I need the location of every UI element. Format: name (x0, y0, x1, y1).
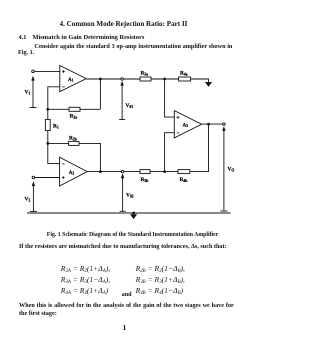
svg-text:R1: R1 (53, 124, 59, 130)
equation R4B (136, 287, 183, 295)
source arrow Vo (220, 126, 227, 211)
wire node to A1 minus (48, 87, 60, 110)
A3 plus pin (177, 116, 180, 119)
A3 minus pin (177, 132, 180, 134)
paragraph line 2 (18, 50, 34, 56)
resistor R4b (178, 170, 190, 174)
wire A2 output (87, 171, 121, 173)
op-amp A2 (60, 157, 88, 186)
resistor R2a (69, 107, 80, 111)
wire R2a to node (48, 108, 69, 110)
wire R3b to R4b (150, 171, 178, 173)
svg-text:V02: V02 (126, 193, 134, 199)
node A3 out (207, 123, 210, 126)
source arrow V1 (30, 76, 37, 108)
terminal V2 (32, 176, 35, 179)
svg-text:A1: A1 (68, 78, 74, 83)
svg-text:R2b: R2b (69, 135, 77, 141)
section heading (33, 35, 145, 41)
resistor R3b (140, 170, 150, 174)
node A1 out (99, 78, 102, 81)
wire R1 bottom (47, 131, 49, 144)
terminal V1 (32, 70, 35, 73)
equation R2B (136, 265, 185, 273)
equation R3A (61, 276, 110, 284)
paragraph line 1 (justified) (34, 44, 232, 50)
wire A2 + input (35, 177, 60, 179)
page number (0, 324, 249, 332)
terminal V02 node (121, 170, 123, 172)
svg-text:R3a: R3a (141, 71, 149, 77)
closing text line 1 (justified) (19, 303, 234, 309)
wire A1 + input (34, 70, 60, 72)
section heading number (19, 35, 27, 41)
svg-text:A3: A3 (183, 123, 189, 128)
node bottom junction (163, 170, 166, 173)
ground symbol bottom (130, 214, 137, 219)
wire A1 output (86, 78, 121, 80)
wire node to A2 minus (48, 143, 60, 163)
wire R2b to A2 output (79, 143, 100, 171)
A1 minus pin (62, 86, 65, 88)
wire A1 feedback vertical (99, 79, 101, 109)
A2 plus pin (62, 176, 65, 179)
conjunction and (122, 292, 132, 298)
ground rail (27, 212, 231, 214)
svg-text:A2: A2 (69, 171, 75, 176)
title (0, 21, 247, 28)
terminal V01 node (121, 78, 123, 80)
equation R3B (136, 276, 185, 284)
wire R4a to ground (191, 79, 209, 82)
body text mismatch (19, 244, 227, 250)
node top junction (163, 78, 166, 81)
wire top junction to A3 plus (165, 79, 175, 117)
terminal Vo (223, 123, 225, 125)
svg-text:V01: V01 (126, 103, 134, 109)
wire bottom junction to A3 minus (165, 133, 175, 172)
wire R4b feedback up (190, 124, 209, 172)
A1 plus pin (62, 70, 65, 73)
wire R3a to R4a (151, 78, 179, 80)
A2 minus pin (62, 163, 65, 165)
wire A3 output (202, 123, 223, 125)
resistor R1 (45, 119, 50, 130)
svg-text:V1: V1 (25, 90, 31, 96)
node A2 out (99, 170, 102, 173)
wire V02 to R3b (124, 171, 140, 173)
node A junction (46, 108, 49, 111)
equation R4A (61, 287, 108, 295)
resistor R2b (69, 141, 79, 145)
equation R2A (61, 265, 110, 273)
resistor R4a (179, 77, 191, 81)
op-amp A1 (60, 66, 86, 92)
svg-text:VO: VO (228, 167, 235, 173)
ground top right (205, 82, 212, 87)
resistor R3a (140, 77, 151, 81)
source arrow V01 (119, 81, 125, 120)
wire R1 top (47, 109, 49, 119)
closing text line 2 (19, 311, 57, 317)
node B junction (46, 142, 49, 145)
wire node to R2b (48, 142, 69, 144)
svg-text:R4b: R4b (180, 177, 188, 183)
svg-text:R3b: R3b (141, 177, 149, 183)
node ground (132, 212, 135, 215)
svg-text:R2a: R2a (70, 114, 78, 120)
op-amp A3 (174, 111, 201, 138)
svg-text:V2: V2 (25, 197, 31, 203)
source arrow V2 (30, 181, 37, 211)
figure caption (47, 233, 218, 239)
source arrow V02 (120, 173, 126, 211)
svg-text:R4a: R4a (180, 71, 188, 77)
wire V01 to R3a (123, 78, 140, 80)
schematic SVG (0, 40, 250, 220)
wire A1 feedback horizontal (80, 108, 100, 110)
